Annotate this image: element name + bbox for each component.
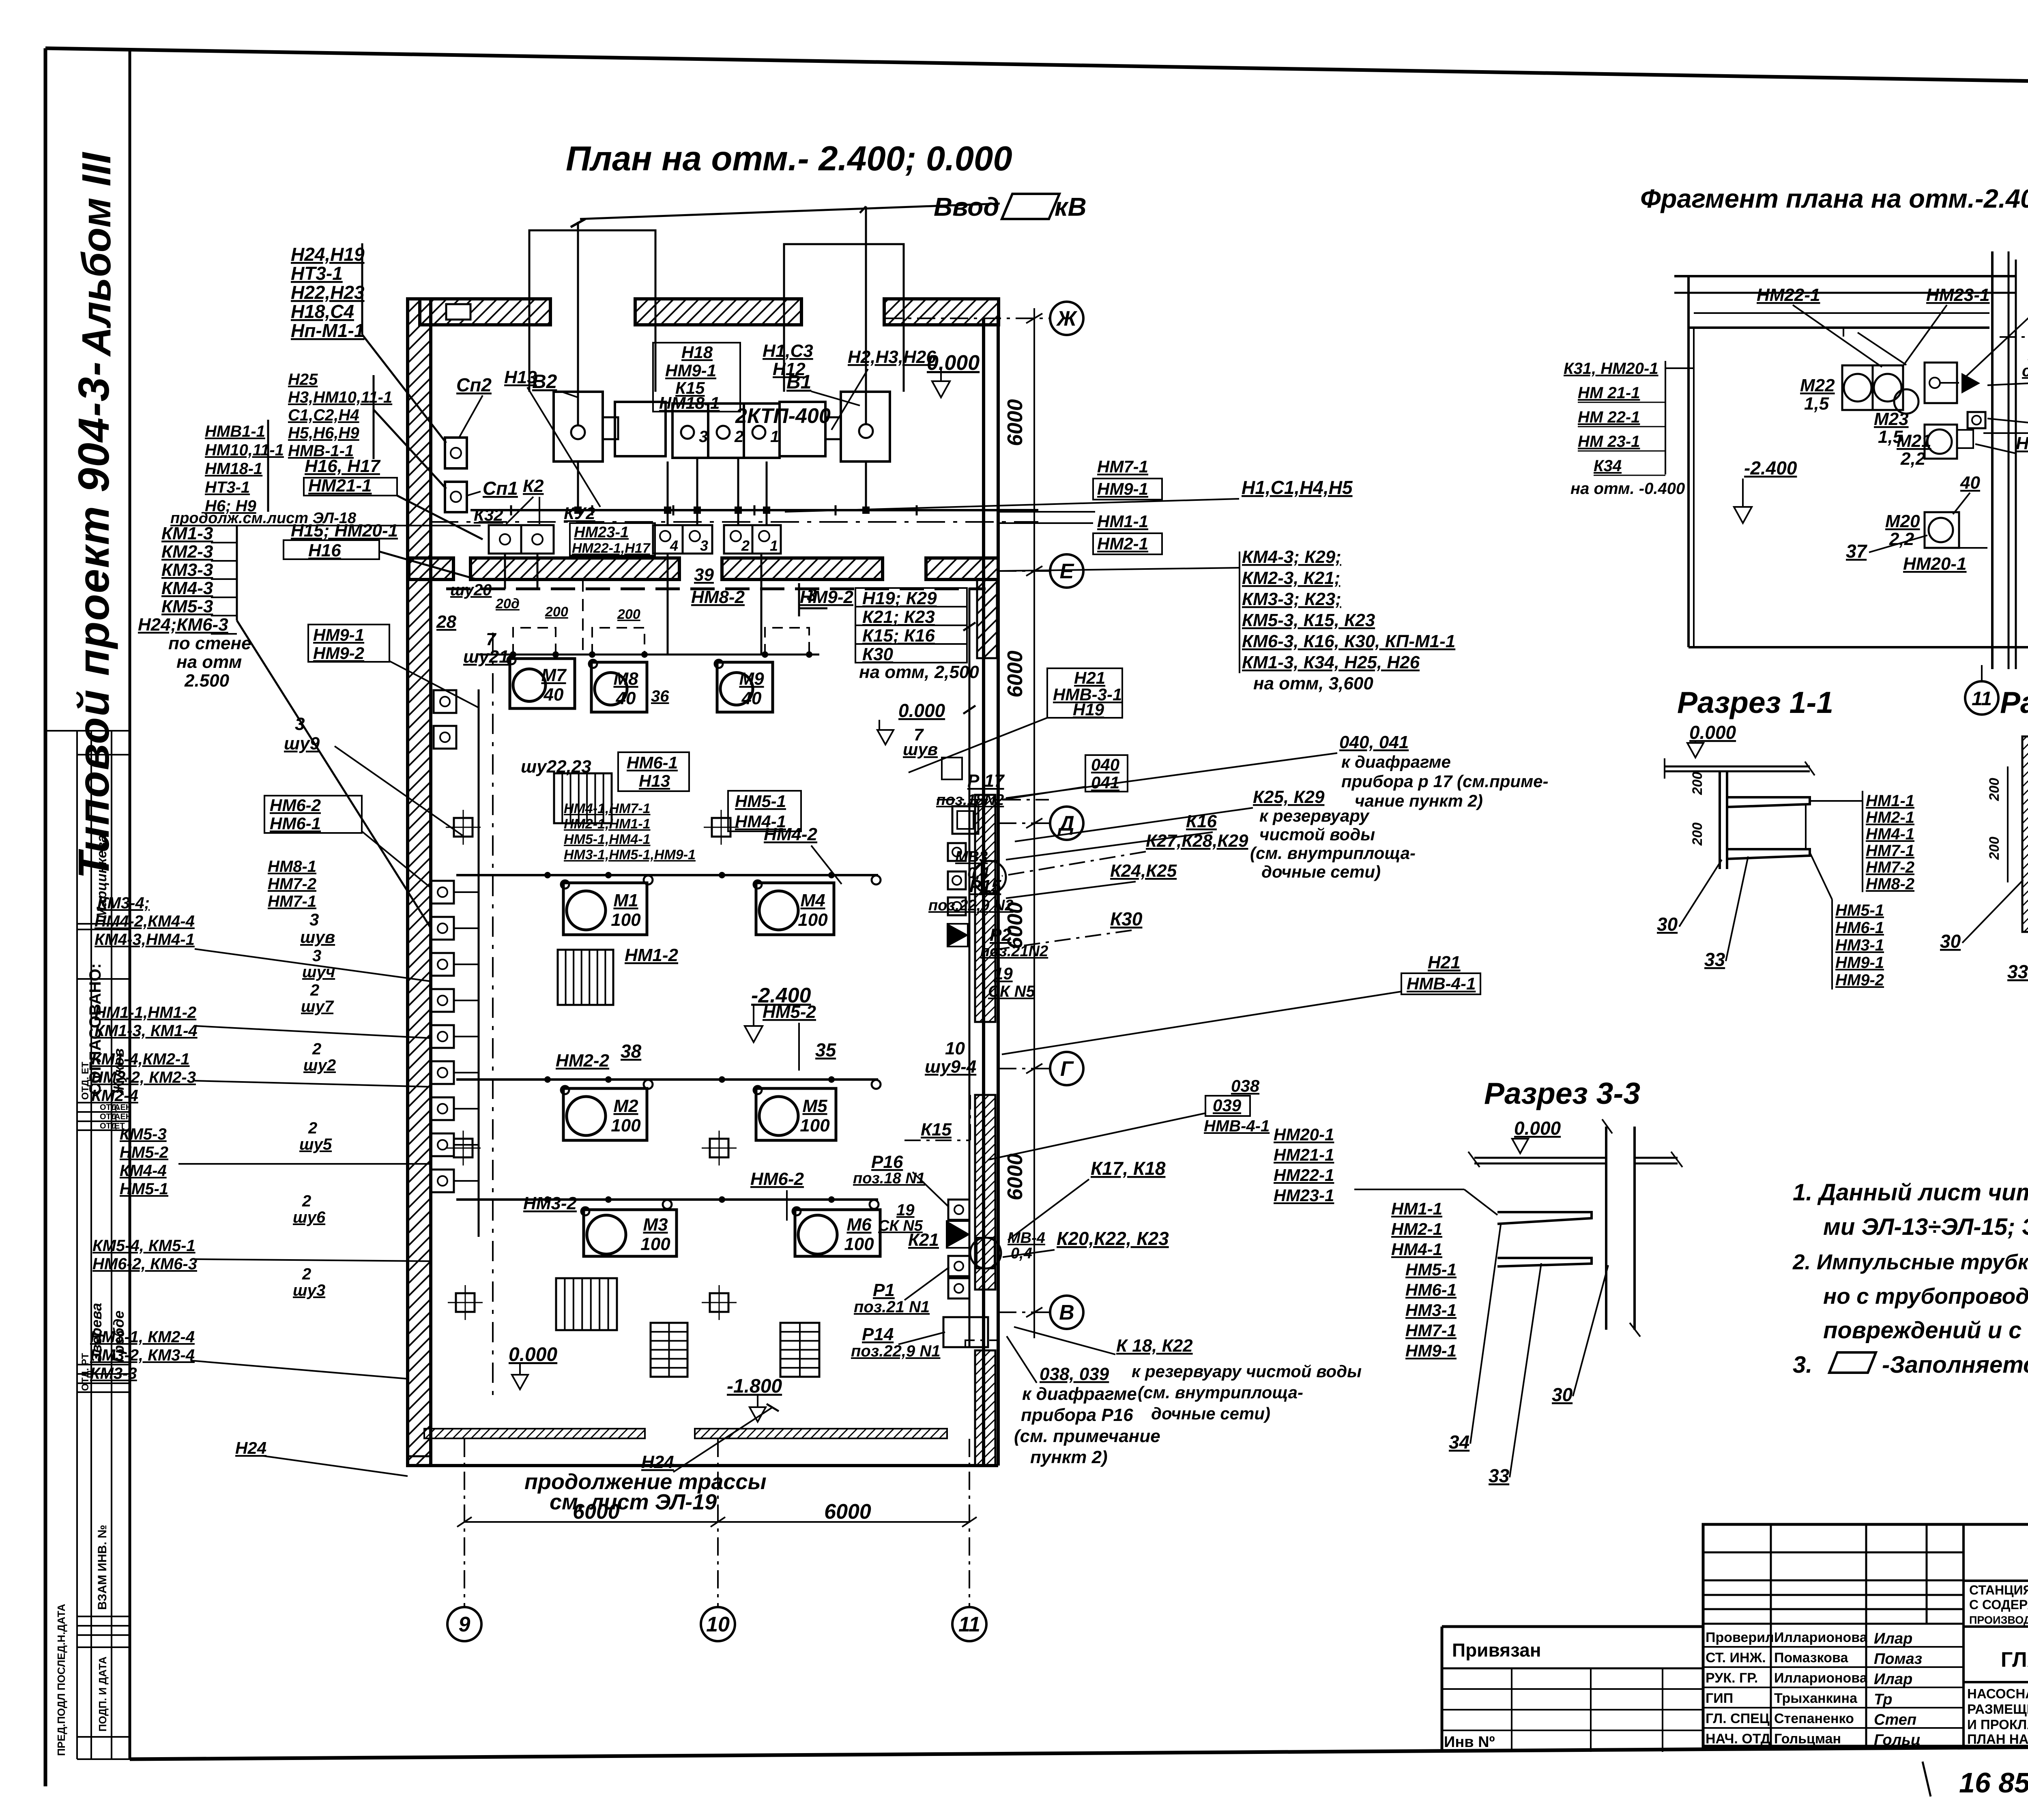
- svg-text:ГЛАВНЫЙ КОРПУС: ГЛАВНЫЙ КОРПУС: [2001, 1648, 2028, 1672]
- svg-text:3: 3: [807, 585, 816, 605]
- svg-text:33: 33: [1489, 1465, 1510, 1486]
- svg-text:40: 40: [741, 689, 762, 708]
- fragment M22 unit: [1842, 365, 1873, 410]
- svg-text:НАЧ. ОТД: НАЧ. ОТД: [1706, 1731, 1770, 1747]
- motor М6: [795, 1210, 880, 1256]
- svg-text:11: 11: [1972, 688, 1992, 710]
- vertical collector line left 2: [492, 633, 494, 1399]
- svg-text:к резервуару: к резервуару: [1259, 806, 1370, 825]
- svg-text:ГЛ. СПЕЦ: ГЛ. СПЕЦ: [1706, 1711, 1770, 1726]
- dim tick: [1026, 1064, 1042, 1073]
- svg-text:НМ9-1: НМ9-1: [313, 625, 364, 644]
- svg-text:М3: М3: [643, 1215, 668, 1235]
- svg-text:3.: 3.: [1793, 1352, 1812, 1378]
- svg-text:Г: Г: [1060, 1057, 1074, 1081]
- svg-text:Н24: Н24: [641, 1452, 674, 1472]
- title block upper mini table: [1703, 1552, 1964, 1554]
- cable bus horizontal: [470, 509, 1038, 511]
- svg-text:19: 19: [896, 1201, 915, 1219]
- motor control bus: [479, 654, 819, 656]
- label NM9-1 NM9-2: [308, 625, 389, 662]
- svg-text:НМ3-2: НМ3-2: [523, 1193, 577, 1213]
- svg-text:шу9-4: шу9-4: [925, 1057, 976, 1077]
- svg-text:3: 3: [699, 428, 708, 446]
- svg-text:КМ5-3: КМ5-3: [120, 1125, 167, 1143]
- svg-text:МВ-4: МВ-4: [1008, 1230, 1045, 1247]
- leader stack B: [374, 410, 446, 489]
- svg-text:СТ. ИНЖ.: СТ. ИНЖ.: [1706, 1650, 1766, 1665]
- RU risers to transformer: [667, 461, 669, 525]
- svg-text:Н24: Н24: [235, 1438, 266, 1457]
- column symbol: [710, 1139, 728, 1157]
- svg-text:НМ1-2: НМ1-2: [625, 945, 679, 965]
- svg-text:шу21: шу21: [463, 647, 509, 667]
- svg-text:Н21: Н21: [1074, 668, 1105, 687]
- fragment K33 box: [1925, 363, 1957, 403]
- svg-text:НМ3-1, КМ2-4: НМ3-1, КМ2-4: [90, 1328, 195, 1346]
- svg-text:НМ5-1: НМ5-1: [120, 1180, 168, 1198]
- leader K2a: [506, 497, 533, 524]
- svg-text:РУК. ГР.: РУК. ГР.: [1706, 1670, 1758, 1686]
- svg-text:М7: М7: [541, 665, 567, 685]
- grid line В: [998, 1311, 1049, 1313]
- svg-text:30: 30: [1940, 931, 1961, 952]
- svg-text:но с трубопроводом с защит: но с трубопроводом с защитой от механиче…: [1823, 1283, 2028, 1309]
- svg-text:100: 100: [611, 1116, 641, 1135]
- svg-text:33: 33: [1704, 949, 1725, 970]
- svg-text:АЕН: АЕН: [114, 1112, 131, 1121]
- svg-text:М20: М20: [1885, 511, 1920, 531]
- svg-text:200: 200: [617, 607, 640, 622]
- grid circle Е: [1050, 554, 1083, 588]
- svg-text:ми ЭЛ-13÷ЭЛ-15; ЭЛ-18; ЭЛ-19: ми ЭЛ-13÷ЭЛ-15; ЭЛ-18; ЭЛ-19: [1823, 1214, 2028, 1240]
- svg-text:0.000: 0.000: [898, 700, 945, 721]
- svg-text:Ввод: Ввод: [934, 192, 999, 221]
- svg-text:К25, К29: К25, К29: [1253, 787, 1325, 807]
- dim tick: [1026, 566, 1042, 576]
- svg-text:0.000: 0.000: [1514, 1118, 1561, 1139]
- svg-text:038, 039: 038, 039: [1040, 1364, 1109, 1384]
- leader N16-N17: [397, 496, 483, 539]
- svg-text:НМ2-2, КМ2-3: НМ2-2, КМ2-3: [91, 1069, 196, 1086]
- strip table horizontal: [77, 1382, 130, 1384]
- svg-text:39: 39: [694, 565, 714, 585]
- svg-text:КМ1-4,КМ2-1: КМ1-4,КМ2-1: [91, 1050, 190, 1068]
- svg-text:прибора р 17 (см.приме-: прибора р 17 (см.приме-: [1341, 772, 1548, 791]
- svg-text:НМ2-2: НМ2-2: [556, 1051, 610, 1071]
- svg-text:НМ18-1: НМ18-1: [659, 393, 720, 412]
- svg-text:1: 1: [770, 537, 778, 554]
- svg-text:Н24,Н19: Н24,Н19: [291, 244, 365, 265]
- svg-text:НМ9-1: НМ9-1: [1835, 954, 1884, 972]
- svg-text:1: 1: [770, 428, 779, 446]
- svg-text:пункт 2): пункт 2): [1030, 1447, 1108, 1467]
- svg-text:НМ 22-1: НМ 22-1: [1578, 408, 1640, 426]
- svg-text:к диафрагме: к диафрагме: [1341, 752, 1451, 771]
- top exterior wall segment 1: [420, 299, 550, 325]
- svg-text:поз.21N2: поз.21N2: [980, 943, 1048, 960]
- vvod parallelogram: [1002, 194, 1059, 219]
- svg-text:КМ5-3: КМ5-3: [161, 597, 213, 616]
- svg-text:Н22,Н23: Н22,Н23: [291, 282, 365, 303]
- svg-text:2,2: 2,2: [1900, 449, 1926, 469]
- svg-text:30: 30: [1552, 1384, 1573, 1405]
- strip table vertical: [90, 731, 92, 1759]
- pump unit square: [431, 1170, 454, 1192]
- svg-text:К15: К15: [921, 1120, 952, 1140]
- svg-text:40: 40: [1960, 473, 1980, 493]
- svg-text:НМ7-2: НМ7-2: [268, 875, 316, 893]
- svg-text:Н25: Н25: [288, 371, 318, 388]
- svg-text:шу5: шу5: [299, 1135, 332, 1153]
- grid circle Г: [1050, 1052, 1083, 1085]
- svg-text:ПРЕД.ПОДЛ ПОСЛЕД.Н.ДАТА: ПРЕД.ПОДЛ ПОСЛЕД.Н.ДАТА: [55, 1604, 67, 1756]
- column symbol: [454, 1139, 473, 1157]
- pump unit square: [431, 881, 454, 904]
- svg-text:3: 3: [309, 910, 319, 929]
- svg-text:6000: 6000: [1003, 650, 1027, 698]
- svg-text:КМ5-3, К15, К23: КМ5-3, К15, К23: [1242, 610, 1375, 630]
- svg-text:Илларионова: Илларионова: [1774, 1670, 1868, 1686]
- svg-text:дочные сети): дочные сети): [1151, 1404, 1270, 1423]
- svg-text:поз.18N2: поз.18N2: [936, 792, 1004, 809]
- svg-text:2: 2: [734, 428, 743, 446]
- strip table horizontal: [77, 1758, 130, 1760]
- svg-text:Помазкова: Помазкова: [1774, 1650, 1848, 1665]
- svg-text:шу9: шу9: [284, 734, 320, 753]
- svg-text:Н16, Н17: Н16, Н17: [305, 456, 381, 476]
- svg-text:НМ8-2: НМ8-2: [1866, 875, 1914, 893]
- interior wall at grid E right part: [926, 558, 998, 579]
- svg-text:шу3: шу3: [293, 1281, 325, 1299]
- svg-text:2: 2: [302, 1265, 311, 1283]
- coupling right: [825, 417, 841, 439]
- strip table horizontal: [77, 1616, 130, 1617]
- svg-text:КМ3-3: КМ3-3: [90, 1365, 137, 1382]
- strip table horizontal: [77, 1634, 130, 1636]
- svg-text:НМ7-1: НМ7-1: [1405, 1321, 1457, 1340]
- stack NM5-1 NM4-1: [728, 791, 801, 831]
- dim tick: [1026, 1307, 1042, 1317]
- svg-text:НМ10,11-1: НМ10,11-1: [205, 441, 284, 459]
- svg-text:ОТД. РТ: ОТД. РТ: [80, 1353, 91, 1391]
- bottom interior wall segment 2: [695, 1429, 947, 1438]
- svg-text:Нп-М1-1: Нп-М1-1: [291, 320, 364, 341]
- svg-text:шув: шув: [300, 927, 335, 946]
- svg-text:Привязан: Привязан: [1452, 1640, 1541, 1661]
- svg-text:100: 100: [798, 910, 828, 930]
- svg-text:В: В: [1059, 1301, 1074, 1324]
- svg-text:Фрагмент плана на отм.-2.400: Фрагмент плана на отм.-2.400: [1640, 184, 2028, 213]
- svg-text:Ж: Ж: [1056, 307, 1078, 331]
- svg-text:К31, НМ20-1: К31, НМ20-1: [1564, 360, 1658, 378]
- section 1-1 floor lines: [1665, 766, 1810, 768]
- bottom exterior wall line: [408, 1464, 998, 1467]
- svg-text:НТ3-1: НТ3-1: [205, 479, 250, 496]
- svg-text:НМ3-1: НМ3-1: [1835, 936, 1884, 954]
- fragment right wall columns: [1991, 251, 1994, 669]
- stack km vertical: [236, 526, 238, 620]
- svg-text:Р 17: Р 17: [967, 771, 1005, 791]
- svg-text:К17, К18: К17, К18: [1091, 1158, 1166, 1179]
- svg-text:2: 2: [312, 1040, 321, 1058]
- svg-text:Разрез 3-3: Разрез 3-3: [1484, 1076, 1640, 1110]
- svg-text:НМ20-1: НМ20-1: [1903, 554, 1967, 574]
- svg-text:С СОДЕРЖАНИЕМ ВЗВЕШЕННЫХ ВЕЩЕС: С СОДЕРЖАНИЕМ ВЗВЕШЕННЫХ ВЕЩЕСТВ ДО 2500…: [1969, 1597, 2028, 1612]
- privyazan table: [1442, 1627, 1703, 1753]
- interior wall at grid E: [470, 558, 679, 579]
- svg-text:НМ6-2: НМ6-2: [750, 1169, 804, 1189]
- top exterior wall segment 3: [884, 299, 999, 325]
- label stack NM23-1: [570, 523, 655, 556]
- svg-text:Трыханкина: Трыханкина: [1774, 1691, 1858, 1706]
- svg-text:038: 038: [1231, 1076, 1260, 1095]
- svg-text:ГИП: ГИП: [1706, 1691, 1733, 1706]
- shu cabinet row on left wall: [434, 690, 456, 713]
- strip table horizontal: [77, 1364, 130, 1365]
- pump unit square: [431, 917, 454, 940]
- motor М1: [563, 883, 647, 935]
- svg-text:Н15; НМ20-1: Н15; НМ20-1: [291, 521, 398, 541]
- strip table horizontal: [77, 978, 130, 980]
- svg-text:МВ3: МВ3: [955, 848, 988, 865]
- svg-text:НМ21-1: НМ21-1: [2016, 434, 2028, 453]
- vertical collector line left: [478, 689, 480, 1237]
- strip table horizontal: [77, 1129, 130, 1131]
- svg-text:Р16: Р16: [871, 1152, 903, 1172]
- grid line Д: [998, 822, 1049, 824]
- svg-text:КМ5-4, КМ5-1: КМ5-4, КМ5-1: [92, 1237, 195, 1255]
- svg-text:КМ4-3,НМ4-1: КМ4-3,НМ4-1: [95, 931, 195, 949]
- svg-text:М22: М22: [1800, 376, 1835, 395]
- svg-text:Сп2: Сп2: [456, 374, 492, 395]
- motor М2: [563, 1088, 647, 1140]
- SP1 box: [445, 482, 467, 512]
- column symbol: [454, 818, 473, 837]
- pump unit square: [431, 1025, 454, 1048]
- svg-text:НМ2-1,НМ1-1: НМ2-1,НМ1-1: [564, 816, 650, 832]
- svg-text:Гольц: Гольц: [1874, 1732, 1921, 1749]
- fragment M23 circle: [1894, 389, 1918, 414]
- svg-text:КМ3-3; К23;: КМ3-3; К23;: [1242, 589, 1341, 609]
- svg-text:поз.21 N1: поз.21 N1: [854, 1298, 930, 1316]
- strip table vertical: [111, 731, 112, 1759]
- section 1-1 bracket bottom: [1727, 849, 1810, 859]
- svg-text:Н18,С4: Н18,С4: [291, 301, 354, 322]
- svg-text:НТ3-1: НТ3-1: [291, 263, 343, 284]
- svg-text:НМ21-1: НМ21-1: [308, 476, 372, 496]
- svg-text:КМ1-3, К34, Н25, Н26: КМ1-3, К34, Н25, Н26: [1242, 652, 1420, 672]
- svg-text:6000: 6000: [1003, 1153, 1027, 1200]
- device box at bottom right: [943, 1317, 988, 1347]
- svg-text:по стене: по стене: [168, 633, 251, 653]
- column symbol: [456, 1293, 475, 1312]
- svg-text:(см. примечание: (см. примечание: [1014, 1426, 1160, 1446]
- RU box 2: [724, 525, 752, 554]
- svg-text:6000: 6000: [1003, 399, 1027, 446]
- svg-text:КМ6-3, К16, К30, КП-М1-1: КМ6-3, К16, К30, КП-М1-1: [1242, 631, 1455, 651]
- svg-text:шу7: шу7: [301, 998, 334, 1015]
- svg-text:НМ 23-1: НМ 23-1: [1578, 433, 1640, 451]
- svg-text:Илар: Илар: [1874, 1630, 1912, 1647]
- svg-text:НМ2-1: НМ2-1: [1097, 534, 1148, 553]
- svg-text:НМ7-1: НМ7-1: [1866, 842, 1914, 860]
- svg-text:Альбом III: Альбом III: [74, 152, 119, 357]
- grid column line 11: [969, 1439, 970, 1607]
- left exterior wall: [408, 299, 431, 1466]
- svg-text:1. Данный лист читать совме: 1. Данный лист читать совместно с листа-: [1793, 1179, 2028, 1206]
- dash leader to V: [965, 1340, 998, 1347]
- strip table horizontal: [77, 1625, 130, 1627]
- leader N16: [379, 552, 479, 580]
- svg-text:2КТП-400: 2КТП-400: [735, 404, 831, 428]
- svg-text:НМВ1-1: НМВ1-1: [205, 423, 265, 440]
- svg-text:НМ9-1: НМ9-1: [1097, 479, 1148, 498]
- svg-text:Н19: Н19: [1073, 700, 1104, 719]
- svg-text:План на отм.- 2.400; 0.000: План на отм.- 2.400; 0.000: [566, 140, 1012, 178]
- strip table horizontal: [77, 1373, 130, 1375]
- grid column line 10: [717, 1439, 719, 1607]
- transformer box 2: [615, 402, 666, 456]
- svg-text:к резервуару чистой воды: к резервуару чистой воды: [1132, 1362, 1362, 1381]
- fragment grid E line: [2000, 336, 2028, 338]
- svg-text:ОТД. ЕТ: ОТД. ЕТ: [80, 1062, 91, 1100]
- svg-text:200: 200: [1987, 778, 2002, 801]
- svg-text:НМ23-1: НМ23-1: [1274, 1186, 1334, 1205]
- svg-text:М6: М6: [846, 1215, 872, 1235]
- svg-text:СТАНЦИЯ ОЧИСТКИ ВОДЫ ПОВЕРХНОС: СТАНЦИЯ ОЧИСТКИ ВОДЫ ПОВЕРХНОСТНЫХ ИСТОЧ…: [1969, 1583, 2028, 1597]
- svg-text:2. Импульсные трубки к диаф: 2. Импульсные трубки к диафрагмам пролож…: [1792, 1250, 2028, 1274]
- transformer cell right big box: [841, 392, 890, 461]
- svg-text:Е: Е: [1060, 560, 1074, 583]
- pump unit square: [431, 953, 454, 976]
- svg-text:НМ6-1: НМ6-1: [1405, 1280, 1457, 1299]
- svg-text:НАСОСНАЯ СТАНЦИЯ II ПОДЪЕМА: НАСОСНАЯ СТАНЦИЯ II ПОДЪЕМА: [1967, 1686, 2028, 1701]
- sheet bottom border: [130, 1745, 2028, 1759]
- svg-text:200: 200: [1987, 837, 2002, 860]
- svg-text:поз.22,9 N1: поз.22,9 N1: [851, 1342, 941, 1360]
- svg-text:К30: К30: [1110, 908, 1143, 929]
- svg-text:В2: В2: [532, 371, 557, 393]
- control loop M9: [765, 628, 809, 655]
- riser B2: [577, 222, 579, 425]
- grid circle Ж: [1050, 302, 1083, 335]
- svg-text:НМ5-2: НМ5-2: [120, 1144, 168, 1161]
- svg-text:КМ2-3, К21;: КМ2-3, К21;: [1242, 568, 1340, 588]
- svg-text:шу20: шу20: [450, 581, 492, 599]
- section 3-3 floor: [1474, 1157, 1606, 1159]
- fragment P8 box: [1968, 412, 1985, 428]
- svg-text:НМ9-2: НМ9-2: [1835, 971, 1884, 989]
- svg-text:М4: М4: [800, 891, 825, 910]
- svg-text:039: 039: [1213, 1096, 1242, 1115]
- svg-text:100: 100: [640, 1234, 670, 1254]
- svg-text:КМ2-3: КМ2-3: [161, 542, 213, 562]
- motor М9: [717, 662, 773, 712]
- grid circle column 10: [701, 1607, 735, 1641]
- svg-text:К2: К2: [523, 476, 544, 496]
- svg-text:НМ3-2, КМ3-4: НМ3-2, КМ3-4: [90, 1346, 195, 1364]
- svg-text:200: 200: [1690, 772, 1705, 795]
- svg-text:2: 2: [308, 1119, 317, 1137]
- svg-text:20д: 20д: [495, 596, 520, 612]
- svg-text:на отм: на отм: [176, 652, 242, 672]
- grid circle column 11: [952, 1607, 986, 1641]
- column symbol: [710, 1293, 728, 1312]
- svg-text:ВЗАМ ИНВ. №: ВЗАМ ИНВ. №: [96, 1525, 109, 1610]
- svg-text:КМ3-3: КМ3-3: [161, 560, 213, 580]
- svg-text:НМ18-1: НМ18-1: [205, 460, 262, 478]
- svg-text:М1: М1: [613, 891, 638, 910]
- svg-text:19: 19: [994, 964, 1013, 983]
- svg-text:Помаз: Помаз: [1874, 1650, 1922, 1668]
- svg-text:НМ6-1: НМ6-1: [627, 753, 678, 772]
- svg-text:ПЛАН НА ОТМ. - 2.400; 0.000: ПЛАН НА ОТМ. - 2.400; 0.000: [1967, 1732, 2028, 1747]
- svg-text:на отм. -0.400: на отм. -0.400: [1570, 480, 1685, 498]
- leader SP2: [460, 395, 483, 437]
- svg-text:-1.800: -1.800: [727, 1376, 782, 1397]
- strip table horizontal: [77, 1120, 130, 1122]
- svg-text:НМ5-1: НМ5-1: [1835, 901, 1884, 919]
- svg-text:см. лист ЭЛ-19: см. лист ЭЛ-19: [550, 1490, 717, 1514]
- svg-text:НМ5-1: НМ5-1: [735, 792, 786, 811]
- svg-text:КМ2-4: КМ2-4: [91, 1087, 138, 1105]
- hall cable line: [456, 1078, 878, 1081]
- sheet top border: [45, 48, 2028, 88]
- svg-text:37: 37: [1846, 541, 1868, 562]
- svg-text:2: 2: [302, 1192, 311, 1210]
- svg-text:Тр: Тр: [1874, 1691, 1892, 1708]
- svg-text:0.000: 0.000: [1689, 722, 1736, 743]
- bottom dimension line: [464, 1521, 969, 1523]
- leader km stack: [237, 620, 431, 929]
- fragment grid 11 line: [1981, 665, 1983, 681]
- MV-3 motor circle: [973, 861, 1006, 893]
- svg-text:Р14: Р14: [862, 1324, 894, 1344]
- svg-text:40: 40: [616, 689, 636, 708]
- sheet outer left border: [44, 48, 47, 1786]
- svg-text:КМ4-4: КМ4-4: [120, 1162, 167, 1180]
- svg-text:Н24;КМ6-3: Н24;КМ6-3: [138, 615, 228, 635]
- dash-dot cable line below bus: [430, 521, 1038, 523]
- svg-text:Н5,Н6,Н9: Н5,Н6,Н9: [288, 424, 359, 442]
- strip table horizontal: [77, 754, 130, 755]
- ladder symbol: [556, 1278, 617, 1330]
- control loop M8: [592, 628, 644, 655]
- pump unit square: [431, 1097, 454, 1120]
- svg-text:НМ1-1: НМ1-1: [1866, 792, 1914, 810]
- svg-text:НМ8-2: НМ8-2: [691, 587, 745, 607]
- strip table horizontal: [77, 1736, 130, 1738]
- svg-text:чистой воды: чистой воды: [1259, 825, 1375, 844]
- svg-text:ПОДП. И ДАТА: ПОДП. И ДАТА: [97, 1657, 109, 1732]
- svg-text:Н1,С3: Н1,С3: [763, 341, 813, 361]
- grid circle В: [1050, 1296, 1083, 1329]
- svg-text:Н13: Н13: [639, 771, 670, 790]
- svg-text:НМ7-1: НМ7-1: [268, 893, 316, 910]
- section 3-3 column: [1605, 1127, 1607, 1330]
- title block outer: [1703, 1524, 2028, 1746]
- top exterior wall segment 2: [635, 299, 801, 325]
- svg-text:СК N5: СК N5: [988, 983, 1035, 1000]
- transformer cell left big box: [554, 392, 603, 461]
- black triangle SK N5 lower: [948, 1223, 969, 1246]
- svg-text:Н18: Н18: [681, 343, 713, 362]
- svg-text:повреждений и с теплоизоляц: повреждений и с теплоизоляцией.: [1823, 1317, 2028, 1344]
- SP2 box: [445, 438, 467, 468]
- svg-text:НМ8-1: НМ8-1: [268, 858, 316, 876]
- coupling left: [603, 417, 618, 439]
